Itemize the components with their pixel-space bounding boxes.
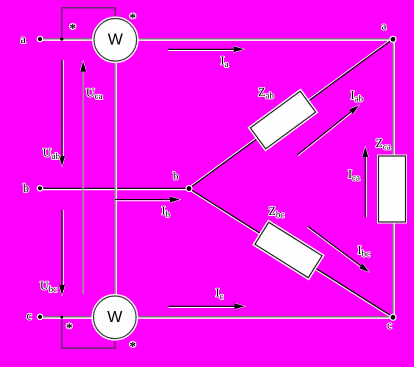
svg-text:b: b [173,171,179,183]
junction loop W2 [60,316,63,319]
svg-text:Uab: Uab [43,146,61,162]
current arrow Ibc [308,227,369,273]
voltage arrow Uca line [82,62,84,295]
current arrow Ic halo [169,307,238,309]
svg-text:Iab: Iab [351,88,364,104]
node b dot [186,186,192,192]
current arrow Ibc halo [307,227,361,267]
svg-text:c: c [387,320,392,332]
svg-text:Zca: Zca [376,136,391,152]
terminal c dot [37,314,42,319]
wire diagonal b-c [189,189,393,318]
current arrow Iab [297,106,359,156]
wire phase a rail [40,38,393,40]
wire diagonal b-a halo [189,38,393,188]
current arrow Iab halo [298,112,352,155]
current arrow Ia halo [168,50,236,52]
svg-text:Ibc: Ibc [358,243,371,259]
current arrow Ica halo [365,155,367,217]
wire b rail halo [40,189,189,191]
node c dot [390,314,396,320]
terminal a dot [37,36,42,41]
svg-text:a: a [382,21,387,33]
svg-text:*: * [130,339,137,354]
current arrow Ic [169,305,245,307]
svg-text:Uca: Uca [86,86,103,102]
wire wattmeter voltage-coil vertical halo [115,61,117,296]
svg-text:c: c [27,309,32,323]
wire W1 voltage loop [62,8,115,39]
svg-text:Ica: Ica [348,167,360,183]
wire wattmeter voltage-coil vertical [114,61,116,296]
current arrow Ica [364,147,366,217]
voltage arrow Uab halo [62,60,64,163]
wire right side a-c halo [393,39,395,317]
wire phase b rail [40,187,189,189]
svg-text:*: * [66,320,73,335]
wattmeter W2 [93,295,138,340]
wire right side a-c [392,39,394,317]
svg-text:*: * [70,21,77,36]
voltage arrow Uab [61,60,63,166]
impedance Zca box [379,156,406,222]
wire phase c rail [40,316,393,318]
svg-text:b: b [23,181,29,195]
wattmeter W1 [93,18,138,63]
wire diagonal b-c halo [189,190,393,319]
terminal b dot [37,186,42,191]
svg-text:W: W [107,309,123,326]
impedance Zab box [250,91,315,149]
svg-text:Ubc: Ubc [40,279,57,295]
wire W2 voltage loop [62,317,115,348]
svg-text:*: * [130,10,137,25]
wire diagonal b-a [189,39,393,189]
svg-text:Zbc: Zbc [269,204,285,220]
svg-text:Ib: Ib [162,204,171,220]
svg-text:Ia: Ia [221,54,229,70]
current arrow Ia [168,48,244,50]
wire c rail halo [40,317,393,319]
voltage arrow Ubc halo [62,210,64,292]
svg-text:Ic: Ic [216,286,224,302]
svg-text:W: W [108,32,124,49]
voltage arrow Ubc [61,210,63,295]
impedance Zbc box [255,222,322,278]
current arrow Ib halo [116,200,173,202]
junction loop W1 [60,37,63,40]
svg-text:a: a [21,32,27,46]
current arrow Ib [116,199,181,201]
node a dot [390,36,396,42]
svg-text:Zab: Zab [258,85,274,101]
wire a rail halo [40,39,393,41]
